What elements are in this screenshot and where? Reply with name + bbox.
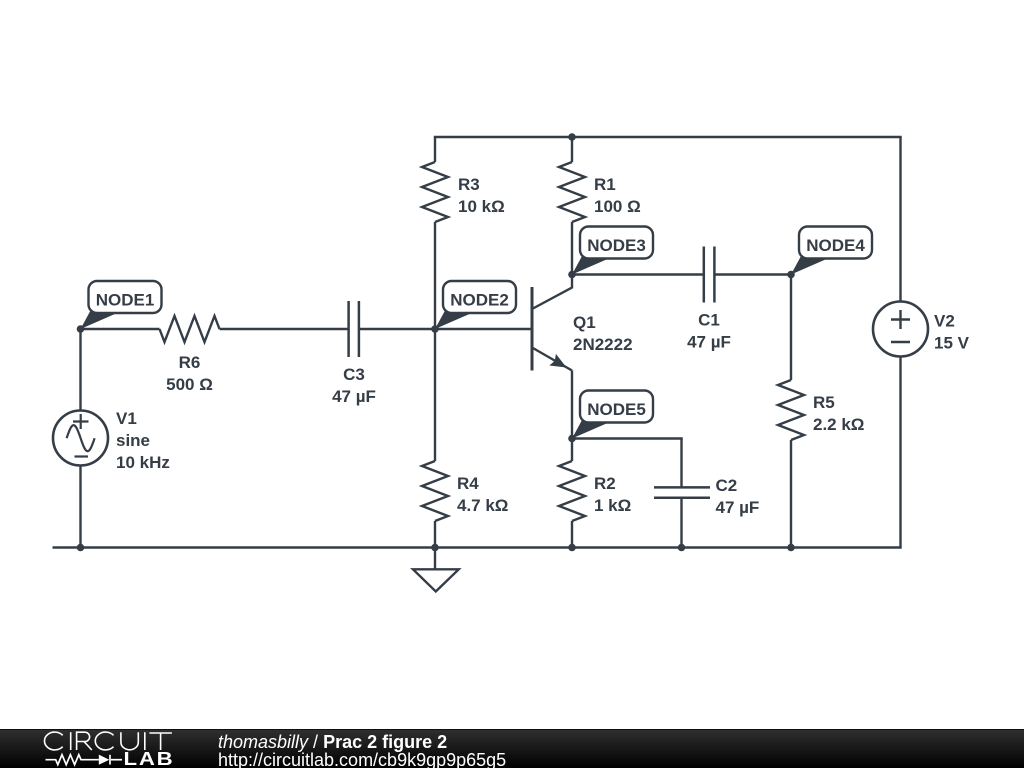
logo word CIRCUIT drawn as strokes bbox=[44, 732, 171, 750]
wire: R3 top lead bbox=[434, 137, 436, 162]
resistor R5 bbox=[778, 380, 804, 440]
svg-text:C2: C2 bbox=[716, 476, 738, 495]
wire: ground stem bbox=[434, 548, 436, 570]
CircuitLab logo bbox=[0, 729, 220, 768]
svg-text:500 Ω: 500 Ω bbox=[166, 375, 213, 394]
wire: V2 branch top bbox=[899, 137, 901, 302]
wire: C2 branch bottom bbox=[680, 498, 682, 548]
node junction dot R2 / bottom rail bbox=[568, 544, 576, 552]
wire: V1 branch bottom bbox=[79, 466, 81, 548]
wire: C2 branch top bbox=[680, 439, 682, 488]
svg-text:V2: V2 bbox=[934, 312, 955, 331]
wire: NODE1 to R6 bbox=[81, 328, 160, 330]
node junction dot R4 / bottom rail bbox=[431, 544, 439, 552]
svg-text:47 µF: 47 µF bbox=[716, 498, 760, 517]
wire: R1 top lead bbox=[571, 137, 573, 162]
wire: NODE5 to C2 branch bbox=[572, 437, 683, 439]
svg-text:10 kHz: 10 kHz bbox=[116, 453, 170, 472]
svg-text:1 kΩ: 1 kΩ bbox=[594, 496, 631, 515]
node junction dot C2 / bottom rail bbox=[678, 544, 686, 552]
svg-text:2.2 kΩ: 2.2 kΩ bbox=[813, 415, 864, 434]
resistor R6 bbox=[160, 316, 220, 342]
transistor Q1 2N2222 bbox=[532, 275, 572, 371]
svg-text:100 Ω: 100 Ω bbox=[594, 197, 641, 216]
wire: V2 branch bottom bbox=[899, 357, 901, 548]
wire: R4 bottom lead bbox=[434, 521, 436, 548]
svg-text:V1: V1 bbox=[116, 409, 137, 428]
wire: NODE5 down to R2 bbox=[571, 439, 573, 462]
wire: NODE2 to Q1 base bbox=[435, 328, 531, 330]
resistor R4 bbox=[422, 461, 448, 521]
svg-text:LAB: LAB bbox=[123, 749, 174, 767]
ground bbox=[413, 569, 459, 591]
voltage source V1 sine bbox=[53, 411, 108, 466]
node NODE4 callout bbox=[787, 227, 872, 279]
svg-text:47 µF: 47 µF bbox=[332, 387, 376, 406]
svg-text:R1: R1 bbox=[594, 175, 616, 194]
wire: C3 to NODE2 bbox=[359, 328, 435, 330]
resistor R2 bbox=[559, 461, 585, 521]
node junction dot top rail / R1 bbox=[568, 133, 576, 141]
voltage source V2 15V bbox=[873, 302, 928, 357]
wire: NODE2 down to R4 bbox=[434, 329, 436, 461]
logo resistor-diode symbol bbox=[46, 754, 123, 764]
svg-text:NODE5: NODE5 bbox=[587, 400, 646, 419]
svg-text:NODE1: NODE1 bbox=[96, 291, 155, 310]
svg-text:R5: R5 bbox=[813, 393, 835, 412]
resistor R1 bbox=[559, 162, 585, 222]
svg-text:10 kΩ: 10 kΩ bbox=[458, 197, 505, 216]
wire: V1 branch top bbox=[79, 329, 81, 411]
wire: R6 to C3 bbox=[220, 328, 349, 330]
node junction dot R5 / bottom rail bbox=[787, 544, 795, 552]
wire: top supply rail bbox=[434, 136, 902, 138]
node NODE1 callout bbox=[77, 281, 162, 333]
wire: bottom ground rail bbox=[53, 546, 902, 548]
resistor R3 bbox=[422, 162, 448, 222]
svg-text:NODE4: NODE4 bbox=[806, 236, 865, 255]
svg-text:4.7 kΩ: 4.7 kΩ bbox=[457, 496, 508, 515]
svg-text:R4: R4 bbox=[457, 474, 479, 493]
node NODE3 callout bbox=[568, 227, 653, 279]
svg-text:NODE2: NODE2 bbox=[450, 291, 509, 310]
svg-text:R3: R3 bbox=[458, 175, 480, 194]
svg-text:C1: C1 bbox=[698, 311, 720, 330]
wire: Q1 emitter to NODE5 bbox=[571, 371, 573, 439]
wire: R2 bottom lead bbox=[571, 521, 573, 548]
svg-text:R6: R6 bbox=[179, 353, 201, 372]
capacitor C3 bbox=[347, 301, 350, 357]
wire: NODE4 down to R5 bbox=[790, 275, 792, 381]
wire: R3 bottom to NODE2 bbox=[434, 222, 436, 329]
footer title text bbox=[218, 733, 506, 770]
svg-text:NODE3: NODE3 bbox=[587, 236, 646, 255]
node NODE2 callout bbox=[431, 281, 516, 333]
svg-text:sine: sine bbox=[116, 431, 150, 450]
footer bar bbox=[0, 729, 1024, 768]
svg-text:15 V: 15 V bbox=[934, 334, 970, 353]
wire: C1 to NODE4 bbox=[714, 273, 791, 275]
wire: R1 bottom to NODE3 bbox=[571, 222, 573, 275]
svg-text:47 µF: 47 µF bbox=[687, 333, 731, 352]
svg-text:2N2222: 2N2222 bbox=[573, 335, 633, 354]
capacitor C1 bbox=[703, 247, 706, 303]
svg-text:C3: C3 bbox=[343, 365, 365, 384]
node NODE5 callout bbox=[568, 391, 653, 443]
wire: R5 bottom lead bbox=[790, 440, 792, 548]
wire: NODE3 to C1 bbox=[572, 273, 704, 275]
svg-text:R2: R2 bbox=[594, 474, 616, 493]
svg-text:Q1: Q1 bbox=[573, 313, 596, 332]
node junction dot V1 / bottom rail bbox=[77, 544, 85, 552]
capacitor C2 bbox=[654, 486, 710, 489]
